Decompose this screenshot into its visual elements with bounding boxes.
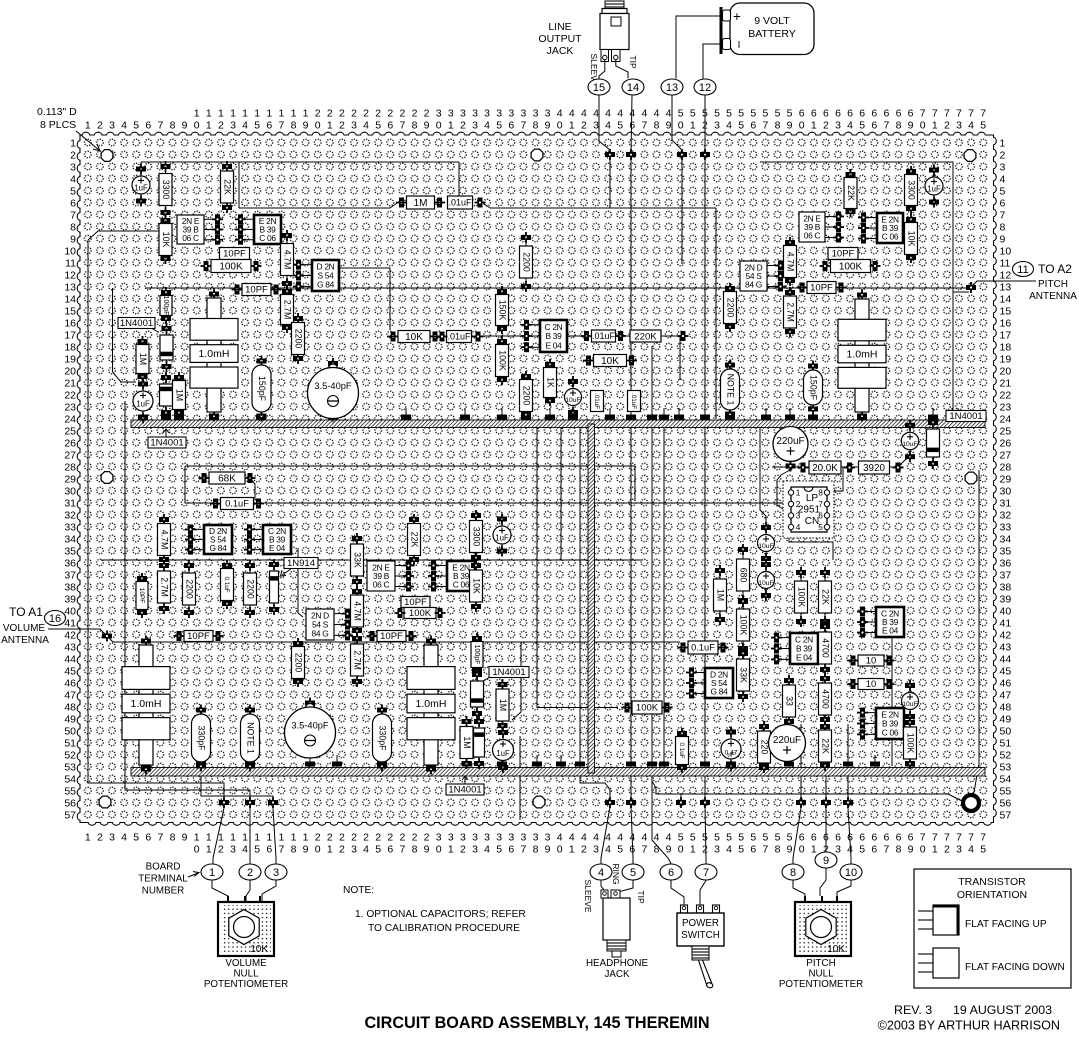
svg-text:3: 3	[436, 108, 442, 120]
svg-text:8: 8	[291, 844, 297, 856]
svg-text:37: 37	[1000, 570, 1012, 582]
svg-text:32: 32	[64, 510, 76, 522]
svg-text:1: 1	[690, 120, 696, 132]
svg-text:2: 2	[363, 108, 369, 120]
svg-text:7: 7	[956, 108, 962, 120]
svg-text:4: 4	[654, 832, 660, 844]
svg-text:5: 5	[726, 832, 732, 844]
svg-text:29: 29	[64, 474, 76, 486]
svg-text:2200: 2200	[184, 579, 194, 599]
svg-text:48: 48	[1000, 702, 1012, 714]
svg-text:6: 6	[387, 120, 393, 132]
svg-text:1.0mH: 1.0mH	[847, 349, 878, 361]
svg-text:3: 3	[714, 844, 720, 856]
svg-text:3: 3	[351, 120, 357, 132]
svg-text:10: 10	[1000, 246, 1012, 258]
svg-text:6: 6	[896, 832, 902, 844]
svg-text:6: 6	[859, 832, 865, 844]
svg-text:1: 1	[327, 120, 333, 132]
svg-text:22K: 22K	[820, 589, 830, 605]
svg-text:14: 14	[627, 82, 639, 94]
svg-text:4: 4	[242, 844, 248, 856]
svg-text:5: 5	[702, 832, 708, 844]
svg-text:1.0mH: 1.0mH	[131, 698, 162, 710]
svg-text:4: 4	[569, 832, 575, 844]
svg-text:G 84: G 84	[210, 543, 228, 553]
svg-text:35: 35	[64, 546, 76, 558]
svg-text:2: 2	[460, 844, 466, 856]
svg-text:7: 7	[762, 844, 768, 856]
svg-text:1: 1	[811, 844, 817, 856]
svg-text:3: 3	[508, 108, 514, 120]
svg-text:9: 9	[666, 120, 672, 132]
svg-text:4: 4	[557, 832, 563, 844]
svg-text:POTENTIOMETER: POTENTIOMETER	[204, 979, 288, 990]
svg-text:10K: 10K	[250, 944, 268, 955]
svg-text:5: 5	[726, 108, 732, 120]
svg-text:1: 1	[1000, 138, 1006, 150]
svg-text:49: 49	[64, 714, 76, 726]
svg-text:10uF: 10uF	[758, 543, 774, 550]
svg-text:16: 16	[1000, 318, 1012, 330]
svg-text:39: 39	[64, 594, 76, 606]
svg-text:1: 1	[932, 120, 938, 132]
svg-text:+: +	[733, 9, 741, 24]
svg-text:0: 0	[315, 844, 321, 856]
svg-text:9: 9	[908, 120, 914, 132]
svg-text:100K: 100K	[636, 703, 659, 714]
svg-text:54: 54	[64, 774, 76, 786]
svg-text:06 C: 06 C	[804, 231, 821, 241]
svg-text:220uF: 220uF	[773, 735, 801, 746]
svg-text:4.7M: 4.7M	[159, 530, 169, 550]
svg-text:OUTPUT: OUTPUT	[538, 33, 582, 45]
svg-text:7: 7	[762, 120, 768, 132]
svg-text:1N4001: 1N4001	[120, 318, 153, 329]
svg-text:4: 4	[666, 832, 672, 844]
svg-text:43: 43	[1000, 642, 1012, 654]
svg-text:49: 49	[1000, 714, 1012, 726]
svg-text:JACK: JACK	[547, 45, 574, 57]
svg-text:5: 5	[678, 832, 684, 844]
svg-text:50: 50	[64, 726, 76, 738]
svg-text:TO A2: TO A2	[1038, 262, 1072, 276]
svg-text:5: 5	[617, 844, 623, 856]
svg-text:10: 10	[866, 679, 877, 690]
svg-text:1: 1	[303, 108, 309, 120]
svg-text:47: 47	[1000, 690, 1012, 702]
svg-text:3: 3	[496, 832, 502, 844]
svg-text:CIRCUIT BOARD ASSEMBLY, 145 TH: CIRCUIT BOARD ASSEMBLY, 145 THEREMIN	[364, 1014, 709, 1032]
svg-text:4: 4	[617, 108, 623, 120]
svg-text:2: 2	[412, 108, 418, 120]
svg-text:20.0K: 20.0K	[812, 463, 838, 474]
svg-text:11: 11	[65, 258, 76, 270]
svg-text:10K: 10K	[827, 944, 845, 955]
svg-text:1: 1	[303, 832, 309, 844]
svg-text:2: 2	[581, 844, 587, 856]
svg-text:6: 6	[811, 108, 817, 120]
svg-text:11: 11	[1017, 264, 1028, 276]
svg-text:4: 4	[726, 844, 732, 856]
svg-text:7: 7	[70, 210, 76, 222]
svg-text:7: 7	[920, 832, 926, 844]
svg-text:22: 22	[64, 390, 76, 402]
svg-text:100pF: 100pF	[162, 296, 169, 316]
svg-text:3.5-40pF: 3.5-40pF	[314, 381, 352, 391]
svg-text:1: 1	[209, 867, 215, 879]
svg-text:0.1uF: 0.1uF	[223, 576, 230, 592]
svg-text:5: 5	[617, 120, 623, 132]
svg-text:1: 1	[242, 832, 248, 844]
svg-text:8: 8	[70, 222, 76, 234]
svg-text:100K: 100K	[738, 615, 748, 636]
svg-text:6: 6	[266, 844, 272, 856]
svg-text:5: 5	[762, 108, 768, 120]
svg-text:©2003 BY ARTHUR HARRISON: ©2003 BY ARTHUR HARRISON	[878, 1019, 1060, 1033]
svg-text:C 06: C 06	[453, 580, 470, 590]
svg-text:3: 3	[230, 120, 236, 132]
svg-text:4: 4	[70, 174, 76, 186]
svg-text:3: 3	[472, 832, 478, 844]
svg-text:220: 220	[759, 740, 769, 755]
svg-text:5: 5	[496, 844, 502, 856]
svg-text:9: 9	[182, 120, 188, 132]
svg-text:9: 9	[823, 855, 829, 867]
svg-text:3: 3	[472, 844, 478, 856]
svg-text:0.113" D: 0.113" D	[37, 106, 77, 118]
svg-text:55: 55	[64, 786, 76, 798]
svg-text:8: 8	[775, 844, 781, 856]
svg-text:2: 2	[702, 844, 708, 856]
svg-text:41: 41	[1000, 618, 1012, 630]
svg-text:7: 7	[520, 844, 526, 856]
svg-text:1: 1	[242, 108, 248, 120]
svg-text:3: 3	[714, 120, 720, 132]
svg-text:2200: 2200	[521, 386, 531, 406]
svg-text:4.7M: 4.7M	[785, 252, 795, 272]
svg-text:22K: 22K	[846, 185, 856, 201]
svg-text:33K: 33K	[352, 552, 362, 568]
svg-text:2: 2	[399, 832, 405, 844]
svg-text:3: 3	[472, 120, 478, 132]
svg-text:3: 3	[448, 832, 454, 844]
svg-text:4: 4	[121, 832, 127, 844]
svg-text:3: 3	[533, 108, 539, 120]
svg-text:54: 54	[1000, 774, 1012, 786]
svg-text:12: 12	[699, 82, 711, 94]
svg-text:4: 4	[641, 108, 647, 120]
svg-text:C 06: C 06	[259, 233, 276, 243]
svg-text:5: 5	[859, 844, 865, 856]
svg-text:5: 5	[690, 832, 696, 844]
svg-text:57: 57	[64, 810, 76, 822]
svg-text:3: 3	[472, 108, 478, 120]
svg-text:8: 8	[533, 844, 539, 856]
svg-text:42: 42	[64, 630, 76, 642]
svg-text:56: 56	[1000, 798, 1012, 810]
svg-text:3: 3	[545, 832, 551, 844]
svg-text:1.0mH: 1.0mH	[416, 698, 447, 710]
svg-text:25: 25	[1000, 426, 1012, 438]
svg-text:JACK: JACK	[604, 969, 630, 980]
svg-text:7: 7	[278, 120, 284, 132]
svg-text:VOLUME: VOLUME	[3, 623, 46, 634]
svg-text:1: 1	[85, 832, 91, 844]
svg-text:25: 25	[64, 426, 76, 438]
svg-text:1N914: 1N914	[287, 558, 315, 569]
svg-text:51: 51	[1000, 738, 1012, 750]
svg-text:4: 4	[121, 120, 127, 132]
svg-text:3: 3	[508, 832, 514, 844]
svg-text:4: 4	[593, 108, 599, 120]
svg-text:ANTENNA: ANTENNA	[1029, 291, 1077, 302]
svg-text:2: 2	[387, 108, 393, 120]
svg-text:1: 1	[206, 832, 212, 844]
svg-text:BOARD: BOARD	[146, 862, 181, 873]
svg-text:22K: 22K	[409, 532, 419, 548]
svg-text:11: 11	[1000, 258, 1011, 270]
svg-text:7: 7	[157, 832, 163, 844]
svg-text:8: 8	[790, 867, 796, 879]
svg-text:3: 3	[593, 120, 599, 132]
svg-text:0: 0	[799, 844, 805, 856]
svg-text:1: 1	[266, 832, 272, 844]
svg-text:7: 7	[980, 832, 986, 844]
svg-text:4: 4	[654, 108, 660, 120]
svg-text:7: 7	[968, 832, 974, 844]
svg-text:TIP: TIP	[628, 55, 638, 69]
svg-text:10PF: 10PF	[138, 588, 145, 604]
svg-text:2: 2	[363, 832, 369, 844]
svg-text:7: 7	[399, 120, 405, 132]
svg-text:4.7M: 4.7M	[352, 601, 362, 621]
svg-text:2200: 2200	[245, 579, 255, 599]
svg-text:10: 10	[845, 867, 857, 879]
svg-text:31: 31	[1000, 498, 1012, 510]
svg-text:9: 9	[1000, 234, 1006, 246]
svg-text:4: 4	[847, 120, 853, 132]
svg-text:4: 4	[557, 108, 563, 120]
svg-text:22K: 22K	[222, 179, 232, 195]
svg-text:6: 6	[835, 108, 841, 120]
svg-text:2951: 2951	[798, 505, 821, 516]
svg-text:5: 5	[762, 832, 768, 844]
svg-text:2: 2	[247, 867, 253, 879]
svg-text:1: 1	[206, 844, 212, 856]
svg-text:TO CALIBRATION PROCEDURE: TO CALIBRATION PROCEDURE	[368, 923, 520, 934]
svg-text:2: 2	[399, 108, 405, 120]
svg-text:100K: 100K	[497, 350, 507, 371]
svg-text:26: 26	[64, 438, 76, 450]
svg-text:6: 6	[835, 832, 841, 844]
svg-text:1: 1	[206, 120, 212, 132]
svg-text:5: 5	[133, 832, 139, 844]
svg-text:4: 4	[363, 844, 369, 856]
svg-text:51: 51	[64, 738, 76, 750]
svg-text:8: 8	[896, 844, 902, 856]
svg-text:2: 2	[581, 120, 587, 132]
svg-text:3: 3	[496, 108, 502, 120]
svg-text:1uF: 1uF	[136, 400, 150, 409]
svg-text:4: 4	[569, 108, 575, 120]
svg-text:8: 8	[412, 120, 418, 132]
svg-text:I: I	[738, 40, 741, 51]
svg-text:2: 2	[327, 108, 333, 120]
svg-text:PITCH: PITCH	[806, 958, 835, 969]
svg-text:6: 6	[859, 108, 865, 120]
svg-text:NULL: NULL	[233, 969, 259, 980]
svg-text:15: 15	[64, 306, 76, 318]
svg-text:4: 4	[581, 108, 587, 120]
svg-text:4: 4	[484, 120, 490, 132]
svg-text:2.7M: 2.7M	[352, 650, 362, 670]
svg-text:20: 20	[64, 366, 76, 378]
svg-text:6: 6	[508, 120, 514, 132]
svg-text:7: 7	[883, 844, 889, 856]
svg-text:0: 0	[194, 844, 200, 856]
svg-text:6: 6	[823, 108, 829, 120]
svg-text:19: 19	[64, 354, 76, 366]
svg-text:100K: 100K	[839, 261, 863, 272]
svg-text:42: 42	[1000, 630, 1012, 642]
svg-text:4: 4	[363, 120, 369, 132]
svg-text:2200: 2200	[293, 653, 303, 673]
svg-text:4: 4	[605, 120, 611, 132]
svg-text:06 C: 06 C	[373, 580, 390, 590]
svg-text:6: 6	[871, 120, 877, 132]
svg-text:NULL: NULL	[808, 969, 834, 980]
svg-text:8 PLCS: 8 PLCS	[40, 119, 76, 131]
svg-text:4: 4	[605, 844, 611, 856]
svg-text:10PF: 10PF	[223, 249, 246, 260]
svg-text:10PF: 10PF	[187, 631, 210, 642]
svg-text:4: 4	[593, 832, 599, 844]
svg-text:1: 1	[278, 108, 284, 120]
svg-text:NOTE 1: NOTE 1	[245, 722, 255, 754]
svg-text:3: 3	[520, 108, 526, 120]
svg-text:3300: 3300	[906, 180, 916, 200]
svg-text:10: 10	[64, 246, 76, 258]
svg-text:ORIENTATION: ORIENTATION	[957, 889, 1027, 901]
svg-text:6: 6	[750, 844, 756, 856]
svg-text:0: 0	[315, 120, 321, 132]
svg-text:9: 9	[70, 234, 76, 246]
svg-text:8: 8	[654, 120, 660, 132]
svg-text:13: 13	[1000, 282, 1012, 294]
svg-text:23: 23	[64, 402, 76, 414]
svg-text:1uF: 1uF	[927, 184, 941, 193]
svg-text:9: 9	[303, 844, 309, 856]
svg-text:34: 34	[1000, 534, 1012, 546]
svg-text:3300: 3300	[471, 527, 481, 547]
svg-text:SWITCH: SWITCH	[681, 930, 720, 941]
svg-text:NOTE 1: NOTE 1	[725, 374, 735, 406]
svg-text:7: 7	[944, 832, 950, 844]
svg-text:.01uF: .01uF	[592, 331, 616, 341]
svg-text:84 G: 84 G	[745, 280, 762, 290]
svg-text:33K: 33K	[738, 667, 748, 683]
svg-text:24: 24	[1000, 414, 1012, 426]
svg-text:7: 7	[278, 844, 284, 856]
svg-text:1uF: 1uF	[134, 183, 148, 192]
svg-text:4: 4	[484, 844, 490, 856]
svg-text:7: 7	[932, 832, 938, 844]
svg-text:8: 8	[291, 120, 297, 132]
svg-text:44: 44	[1000, 654, 1012, 666]
svg-text:44: 44	[64, 654, 76, 666]
svg-text:6: 6	[1000, 198, 1006, 210]
svg-text:100K: 100K	[219, 261, 243, 272]
svg-text:3: 3	[593, 844, 599, 856]
svg-text:SLEEVE: SLEEVE	[583, 879, 593, 912]
svg-text:8: 8	[170, 120, 176, 132]
svg-text:3920: 3920	[863, 463, 885, 474]
svg-text:46: 46	[64, 678, 76, 690]
svg-text:7: 7	[703, 867, 709, 879]
svg-text:35: 35	[1000, 546, 1012, 558]
svg-text:21: 21	[64, 378, 76, 390]
svg-text:3.5-40pF: 3.5-40pF	[291, 721, 329, 731]
svg-text:06 C: 06 C	[182, 233, 199, 243]
svg-text:5: 5	[980, 844, 986, 856]
svg-text:7: 7	[920, 108, 926, 120]
svg-text:10PF: 10PF	[810, 283, 833, 294]
svg-text:2.7M: 2.7M	[785, 302, 795, 322]
svg-text:1: 1	[254, 108, 260, 120]
svg-text:5: 5	[496, 120, 502, 132]
svg-text:2: 2	[70, 150, 76, 162]
svg-text:0.1uF: 0.1uF	[691, 643, 715, 653]
svg-text:6: 6	[871, 832, 877, 844]
svg-text:0: 0	[194, 120, 200, 132]
svg-text:1: 1	[230, 832, 236, 844]
svg-text:1N4001: 1N4001	[949, 411, 982, 422]
svg-text:ANTENNA: ANTENNA	[1, 635, 49, 646]
svg-text:5: 5	[738, 108, 744, 120]
svg-text:2: 2	[339, 120, 345, 132]
svg-text:TIP: TIP	[636, 890, 646, 904]
svg-text:55: 55	[1000, 786, 1012, 798]
svg-text:18: 18	[1000, 342, 1012, 354]
svg-text:TERMINAL: TERMINAL	[138, 874, 188, 885]
svg-text:47: 47	[64, 690, 76, 702]
svg-text:4: 4	[629, 108, 635, 120]
svg-text:3: 3	[956, 844, 962, 856]
svg-text:2: 2	[218, 120, 224, 132]
svg-text:30: 30	[1000, 486, 1012, 498]
svg-text:5: 5	[787, 832, 793, 844]
svg-text:10PF: 10PF	[380, 631, 403, 642]
svg-text:16: 16	[64, 318, 76, 330]
svg-text:uF: uF	[727, 752, 735, 759]
svg-text:2200: 2200	[521, 252, 531, 272]
svg-text:2: 2	[1000, 150, 1006, 162]
svg-text:17: 17	[64, 330, 76, 342]
svg-text:1: 1	[254, 832, 260, 844]
svg-text:1: 1	[194, 108, 200, 120]
svg-text:5: 5	[859, 120, 865, 132]
svg-text:E 04: E 04	[269, 543, 286, 553]
svg-text:9: 9	[424, 844, 430, 856]
svg-text:4: 4	[581, 832, 587, 844]
svg-text:0.1uF: 0.1uF	[225, 499, 249, 509]
svg-text:36: 36	[64, 558, 76, 570]
svg-text:10PF: 10PF	[245, 285, 268, 296]
svg-text:10K: 10K	[471, 578, 481, 594]
svg-text:6: 6	[847, 108, 853, 120]
svg-text:10K: 10K	[161, 232, 171, 248]
